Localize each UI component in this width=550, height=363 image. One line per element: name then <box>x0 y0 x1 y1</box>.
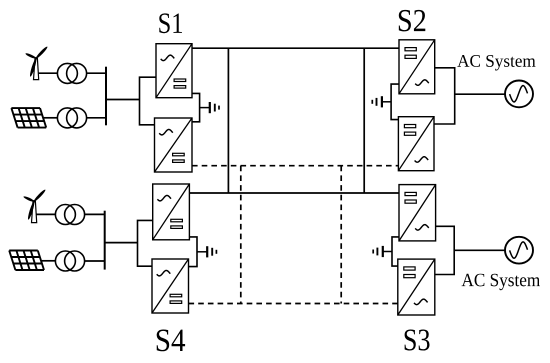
wire T2 to bus B1 <box>86 117 106 119</box>
wire: AC-side bracket of S3 <box>435 226 454 274</box>
wire T3 to bus B2 <box>85 213 105 215</box>
converter S1 lower (AC/DC block) <box>155 118 193 172</box>
wind turbine WT2 <box>23 189 46 223</box>
label S3 <box>405 329 430 350</box>
converter S2 upper (DC/AC block) <box>399 40 435 94</box>
wire S2 to AC source G1 <box>455 93 505 95</box>
wire: DC mid-point bracket at S2 <box>391 84 399 120</box>
wire DC negative pole S1-S2 (dashed) <box>192 165 398 167</box>
solar PV array PV1 <box>11 108 46 128</box>
wire WT1 to transformer T1 <box>38 72 57 74</box>
transformer T2 (two overlapping circles) <box>57 108 86 128</box>
ground S2 <box>372 96 391 107</box>
bus B2 <box>104 211 106 270</box>
wire PV1 to transformer T2 <box>44 117 58 119</box>
wire T1 to bus B1 <box>87 72 106 74</box>
wire WT2 to transformer T3 <box>36 213 55 215</box>
converter S3 lower (DC/AC block) <box>398 259 435 315</box>
AC source G2 (circle with sine) <box>505 237 533 264</box>
bus B1 <box>105 67 107 126</box>
wire DC negative tie line 1 (dashed) <box>240 166 242 304</box>
wire: AC-side bracket of S2 <box>434 68 455 124</box>
converter S4 lower (AC/DC block) <box>152 259 189 313</box>
wire DC negative pole S4-S3 (dashed) <box>189 303 398 305</box>
label AC System (top) <box>457 55 535 71</box>
wind turbine WT1 <box>25 46 48 80</box>
ground S4 <box>197 246 216 257</box>
label S1 <box>159 13 182 33</box>
wire S3 to AC source G2 <box>454 249 505 251</box>
wire bus B1 to station S1 <box>106 99 140 101</box>
wire DC negative tie line 2 (dashed) <box>340 166 342 304</box>
converter S3 upper (DC/AC block) <box>399 185 436 241</box>
converter S1 upper (AC/DC block) <box>156 44 192 98</box>
transformer T4 (two overlapping circles) <box>55 251 84 271</box>
transformer T1 (two overlapping circles) <box>57 63 86 83</box>
ground S3 <box>373 246 392 257</box>
wire T4 to bus B2 <box>84 260 105 262</box>
wire: DC mid-point bracket at S4 <box>189 237 198 267</box>
wire: DC mid-point bracket at S1 <box>192 93 200 121</box>
label AC System (bottom) <box>462 274 540 291</box>
label S2 <box>399 10 426 32</box>
wire DC positive pole S4-S3 <box>189 192 399 194</box>
wire: DC mid-point bracket at S3 <box>392 237 399 266</box>
wire: AC-side bracket of S1 <box>140 77 157 125</box>
label S4 <box>157 329 185 351</box>
wire DC tie line 2 (vertical) <box>363 48 365 193</box>
transformer T3 (two overlapping circles) <box>55 205 84 225</box>
converter S2 lower (DC/AC block) <box>398 117 434 171</box>
wire DC tie line 1 (vertical) <box>227 48 229 193</box>
wire bus B2 to station S4 <box>105 242 138 244</box>
wire PV2 to transformer T4 <box>42 260 56 262</box>
wire: AC-side bracket of S4 <box>138 220 153 266</box>
wire DC positive pole S1-S2 <box>192 47 399 49</box>
AC source G1 (circle with sine) <box>505 81 533 108</box>
converter S4 upper (AC/DC block) <box>153 184 190 240</box>
solar PV array PV2 <box>9 251 44 271</box>
ground S1 <box>200 102 219 113</box>
